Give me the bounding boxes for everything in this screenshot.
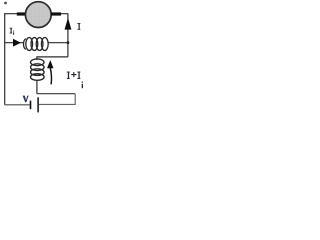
node junction dot — [67, 41, 70, 44]
stray dot — [4, 2, 7, 5]
label I+Ii — [67, 72, 83, 89]
wire coil bottom lead — [36, 80, 38, 94]
wire field branch right — [48, 42, 68, 44]
inductor L1 horizontal coil — [24, 38, 49, 51]
inductor L2 vertical coil — [31, 59, 45, 80]
wire bottom-left — [5, 104, 30, 106]
wire shunt top — [37, 57, 68, 60]
label V — [23, 96, 29, 103]
label I — [77, 23, 80, 30]
machine circle M1 — [25, 2, 51, 28]
armature left stub — [17, 12, 26, 15]
arrow I (current up on right wire) — [65, 18, 72, 30]
battery V short plate — [30, 101, 32, 110]
arrow Ii (current into series coil) — [13, 39, 21, 47]
wire left+top — [5, 14, 17, 105]
wire bottom-right loop — [37, 93, 75, 95]
wire top-right and right drop — [61, 14, 68, 57]
battery V long plate — [37, 97, 39, 112]
label Ii — [10, 28, 15, 35]
armature right stub — [51, 12, 61, 15]
arrow I+Ii annotation — [47, 60, 54, 68]
wire field branch left — [5, 42, 24, 44]
